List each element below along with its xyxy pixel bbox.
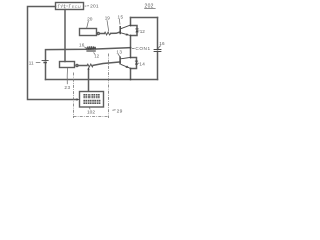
svg-text:13: 13 — [116, 49, 122, 54]
wire collector upper IGBT — [130, 18, 132, 26]
relay box 20 — [80, 29, 97, 36]
svg-text:20: 20 — [87, 17, 93, 23]
wire diode branch lower — [131, 58, 137, 69]
svg-text:201: 201 — [90, 4, 99, 10]
leader 13 — [118, 54, 120, 57]
leader CON1 — [132, 47, 135, 49]
wire right rail upper — [157, 18, 159, 50]
leader 12 coil — [94, 52, 95, 54]
leader 15 — [118, 19, 121, 25]
svg-text:12: 12 — [140, 29, 146, 34]
junction node C — [130, 57, 132, 59]
wire battery negative — [45, 63, 47, 80]
junction node B — [130, 35, 132, 37]
wire battery top to reactor line — [46, 48, 131, 61]
junction node A — [130, 25, 132, 27]
svg-text:15: 15 — [118, 14, 124, 19]
arrow into driver box — [77, 98, 80, 100]
leader 14 diode — [138, 62, 139, 64]
wire right rail lower — [157, 52, 159, 80]
leader 16 coil — [84, 47, 87, 49]
wire lower gate — [78, 65, 87, 67]
junction node D — [130, 68, 132, 70]
battery 11 — [42, 61, 49, 63]
wire bottom DC- rail — [46, 79, 158, 81]
leader 12 diode — [138, 30, 139, 32]
label 202 underline — [144, 7, 155, 9]
svg-text:19: 19 — [105, 16, 111, 21]
node CON1 — [130, 47, 132, 49]
contact circle of relay 23 — [76, 64, 78, 66]
boundary 102 dash-dot left — [73, 73, 75, 119]
svg-text:CON1: CON1 — [135, 46, 150, 51]
ECU box text インバータECU — [58, 4, 71, 8]
wire emitter upper to collector lower — [130, 36, 132, 58]
leader 102 — [88, 107, 91, 109]
resistor 21 — [87, 64, 93, 67]
svg-text:202: 202 — [145, 3, 154, 9]
inverter ECU box 201 — [56, 3, 84, 10]
leader 23 — [66, 68, 68, 84]
leader 20 — [87, 21, 89, 28]
wire diode branch upper — [131, 26, 137, 36]
leader 16 cap — [158, 46, 161, 49]
IGBT Q15 upper — [120, 25, 130, 35]
wire upper gate — [99, 33, 104, 35]
svg-text:16: 16 — [79, 43, 85, 48]
relay box 23 — [60, 62, 75, 68]
boundary 102 dash-dot bottom — [74, 116, 109, 118]
leader 19 — [107, 20, 109, 31]
svg-text:16: 16 — [159, 41, 165, 46]
wire emitter lower to rail — [130, 69, 132, 80]
wire ECU to relay coil — [64, 10, 66, 62]
driver box text 制御装置 — [83, 100, 87, 104]
driver box 102 — [80, 92, 104, 108]
contact circle of relay 20 — [97, 32, 99, 34]
arrow wire driver to gate — [88, 69, 90, 92]
leader 201 — [85, 5, 89, 7]
boundary 102 dash-dot right — [108, 54, 110, 119]
IGBT Q13 lower — [120, 56, 130, 68]
leader 11 — [36, 62, 41, 64]
svg-text:23: 23 — [64, 85, 70, 90]
capacitor 16 — [154, 50, 162, 52]
wire ECU left loop — [28, 7, 78, 100]
wire top DC+ rail — [131, 17, 158, 19]
junction node rail — [130, 79, 132, 81]
resistor 19 — [104, 32, 111, 35]
diode D14 — [135, 61, 138, 64]
reactor coil 12 — [86, 46, 96, 51]
diode D12 — [135, 29, 138, 32]
svg-text:14: 14 — [139, 61, 145, 66]
svg-text:102: 102 — [87, 110, 95, 116]
svg-text:12: 12 — [94, 53, 99, 58]
driver box text 第1駆動 — [83, 94, 100, 104]
svg-text:ECU: ECU — [72, 4, 81, 9]
svg-text:29: 29 — [117, 108, 123, 114]
svg-text:11: 11 — [29, 61, 34, 66]
leader 29 — [112, 109, 115, 112]
